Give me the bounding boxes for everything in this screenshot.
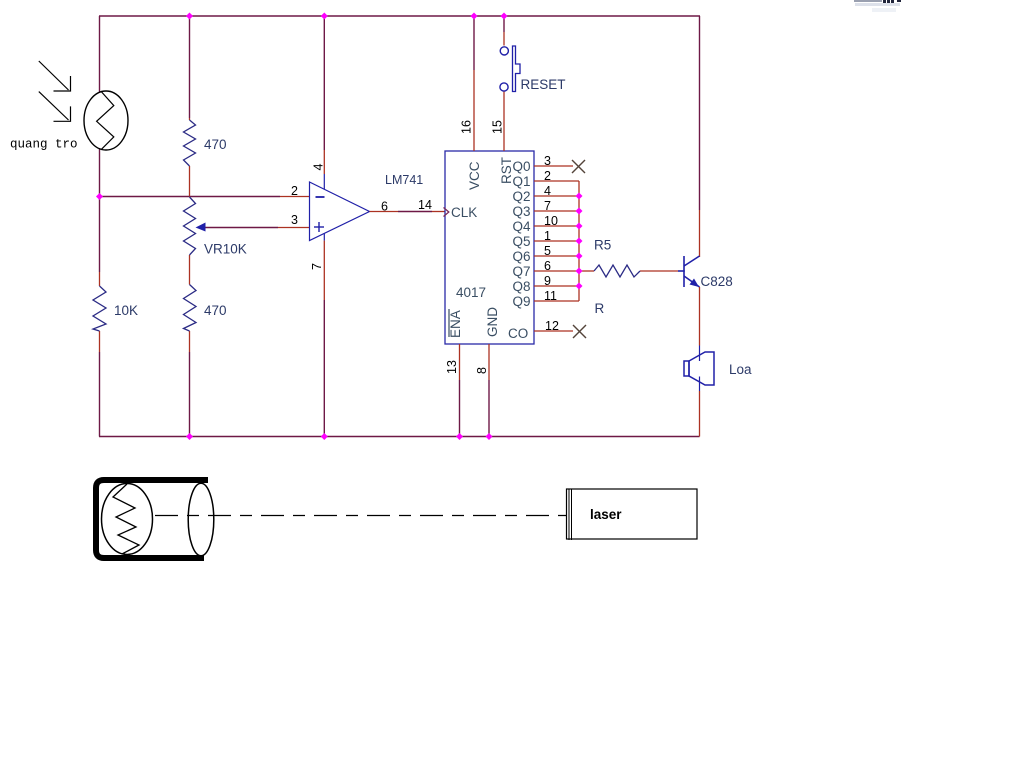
wire top border V+ rail — [99, 15, 700, 17]
svg-text:quang tro: quang tro — [10, 138, 78, 152]
svg-text:Loa: Loa — [729, 362, 752, 377]
node dot bus Q3 — [576, 208, 583, 215]
op-amp minus — [316, 196, 325, 198]
wire Q7 pin6 — [534, 270, 579, 272]
transistor Q1 C828 — [678, 256, 700, 287]
node dot bottom rail x459 — [456, 433, 463, 440]
light arrow 1 — [39, 61, 71, 91]
wire pin6 to CLK — [370, 211, 399, 213]
svg-text:Q8: Q8 — [512, 279, 530, 294]
node dot bus Q6 — [576, 253, 583, 260]
node dot bus Q2 — [576, 193, 583, 200]
wire right border top (to collector) — [699, 16, 701, 210]
laser beam dash-dot line — [155, 515, 566, 517]
emitter — [684, 276, 700, 287]
node dot left border y196 — [96, 193, 103, 200]
wire Q4 pin10 — [534, 225, 579, 227]
browser artifact top right — [854, 0, 901, 12]
svg-text:Q4: Q4 — [512, 219, 531, 234]
pushbutton RESET actuator — [513, 46, 521, 92]
laser detector LDR zigzag — [113, 484, 139, 554]
no-connect X CO — [573, 325, 586, 338]
LDR quang tro ellipse — [84, 91, 128, 150]
svg-text:7: 7 — [544, 199, 551, 213]
node dot top rail x323 — [321, 13, 328, 20]
resistor R 470 upper leads — [189, 118, 191, 120]
svg-text:5: 5 — [544, 244, 551, 258]
svg-text:10K: 10K — [114, 303, 138, 318]
svg-text:VCC: VCC — [467, 161, 482, 190]
wire Q6 pin5 — [534, 255, 579, 257]
svg-text:8: 8 — [475, 367, 489, 374]
wire Q8 pin9 — [534, 285, 579, 287]
wire output bus — [578, 181, 580, 301]
light arrow 2 — [39, 92, 71, 122]
base lead — [678, 270, 685, 272]
node dot top rail x503 — [501, 13, 508, 20]
svg-text:C828: C828 — [701, 274, 733, 289]
svg-text:RESET: RESET — [521, 77, 566, 92]
node dot bus Q7 — [576, 268, 583, 275]
wire Q1 pin2 — [534, 180, 579, 182]
wire pin7 rail to ground — [323, 300, 325, 437]
svg-text:Q9: Q9 — [512, 294, 530, 309]
lens ellipse — [188, 483, 214, 556]
laser detector LDR ellipse — [102, 484, 153, 555]
svg-text:ENA: ENA — [448, 310, 463, 338]
svg-text:9: 9 — [544, 274, 551, 288]
svg-text:13: 13 — [445, 360, 459, 374]
wire CO pin12 — [534, 330, 573, 332]
svg-text:CO: CO — [508, 326, 528, 341]
resistor 470 upper zigzag — [184, 120, 196, 166]
svg-text:4: 4 — [312, 164, 326, 171]
laser detector tube — [96, 480, 208, 558]
wire pin16 — [473, 16, 475, 70]
svg-text:GND: GND — [485, 307, 500, 337]
wire rail R2 top (470) — [189, 16, 191, 118]
node dot bottom rail x489 — [486, 433, 493, 440]
svg-text:Q2: Q2 — [512, 189, 530, 204]
svg-text:4017: 4017 — [456, 285, 486, 300]
resistor R5 leads — [579, 270, 594, 272]
IC U2 4017 body — [445, 151, 534, 344]
wire left border node to 10K — [99, 197, 101, 273]
pushbutton RESET contacts — [500, 47, 508, 55]
wire emitter to speaker — [699, 287, 701, 346]
wire Q9 pin11 — [534, 300, 579, 302]
svg-text:7: 7 — [310, 263, 324, 270]
laser box — [567, 489, 698, 539]
wire left border 10K to ground — [99, 331, 101, 352]
node A horizontal wire to pin2 — [100, 196, 281, 198]
laser aperture lines — [568, 489, 570, 541]
svg-text:12: 12 — [545, 319, 559, 333]
svg-text:2: 2 — [291, 184, 298, 198]
svg-text:10: 10 — [544, 214, 558, 228]
collector — [684, 256, 700, 266]
labels Q0-Q9 — [512, 159, 531, 309]
op-amp pin 7 lead — [323, 233, 325, 241]
wire pin15 lower — [503, 92, 505, 152]
svg-text:14: 14 — [418, 198, 432, 212]
emitter arrow — [690, 279, 700, 288]
svg-text:470: 470 — [204, 303, 227, 318]
svg-text:6: 6 — [544, 259, 551, 273]
svg-text:4: 4 — [544, 184, 551, 198]
svg-text:VR10K: VR10K — [204, 242, 247, 257]
op-amp U1 LM741 triangle — [310, 182, 370, 241]
wire pin8 — [488, 344, 490, 380]
wire collector feed — [699, 210, 701, 257]
svg-text:16: 16 — [460, 120, 474, 134]
potentiometer wiper arrow — [196, 223, 206, 232]
potentiometer VR10K leads — [189, 255, 191, 285]
wire pin3 stub — [278, 227, 310, 229]
node dot bottom rail x323 — [321, 433, 328, 440]
svg-text:Q7: Q7 — [512, 264, 530, 279]
wire Q5 pin1 — [534, 240, 579, 242]
node dot bus Q8 — [576, 283, 583, 290]
LDR zigzag — [97, 92, 114, 150]
no-connect X Q0 — [572, 160, 585, 173]
resistor 470 lower zigzag — [184, 285, 197, 332]
op-amp pin 4 lead — [323, 150, 325, 174]
potentiometer VR10K zigzag — [184, 197, 196, 255]
node dot top rail x189 — [186, 13, 193, 20]
op-amp plus — [314, 222, 324, 232]
svg-text:Q5: Q5 — [512, 234, 530, 249]
svg-text:1: 1 — [544, 229, 551, 243]
svg-text:R5: R5 — [594, 238, 611, 253]
ENA overline — [448, 309, 450, 337]
svg-text:Q3: Q3 — [512, 204, 530, 219]
svg-text:6: 6 — [381, 200, 388, 214]
node dot bus Q4 — [576, 223, 583, 230]
svg-text:11: 11 — [544, 289, 557, 303]
svg-text:CLK: CLK — [451, 205, 477, 220]
wire Q0 pin3 — [534, 165, 573, 167]
resistor 470 lower leads — [189, 331, 191, 352]
wire Q3 pin7 — [534, 210, 579, 212]
base bar — [683, 256, 685, 287]
svg-text:Q6: Q6 — [512, 249, 530, 264]
svg-text:3: 3 — [544, 154, 551, 168]
node dot bus Q5 — [576, 238, 583, 245]
wire left border top (to LDR) — [99, 16, 101, 93]
wire Q2 pin4 — [534, 195, 579, 197]
clock triangle marker — [444, 208, 449, 217]
svg-text:Q0: Q0 — [512, 159, 530, 174]
wire left border LDR to node — [99, 148, 101, 197]
svg-text:15: 15 — [491, 120, 505, 134]
node dot top rail x473 — [471, 13, 478, 20]
svg-text:Q1: Q1 — [512, 174, 530, 189]
svg-text:3: 3 — [291, 213, 298, 227]
wire speaker to ground — [699, 377, 701, 392]
svg-text:laser: laser — [590, 507, 622, 522]
wire pin15 upper (to reset button) — [503, 16, 505, 32]
wire pin2 stub — [280, 196, 310, 198]
svg-text:LM741: LM741 — [385, 173, 423, 187]
svg-text:2: 2 — [544, 169, 551, 183]
speaker Loa — [684, 352, 714, 385]
wire bottom border ground rail — [99, 436, 700, 438]
resistor 10K zigzag — [93, 286, 106, 331]
svg-text:470: 470 — [204, 137, 227, 152]
resistor R5 zigzag — [594, 265, 640, 277]
wire wiper to pin3 — [205, 227, 278, 229]
svg-text:R: R — [595, 301, 605, 316]
wire pin4 rail — [323, 16, 325, 150]
wire pin13 — [459, 344, 461, 380]
node dot bottom rail x189 — [186, 433, 193, 440]
